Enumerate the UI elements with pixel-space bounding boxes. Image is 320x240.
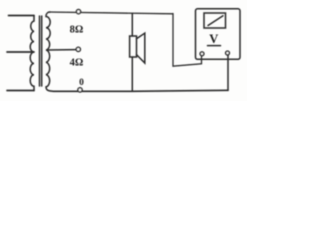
transformer T primary winding: [30, 16, 34, 91]
speaker LS: [130, 36, 137, 57]
voltmeter U case: [196, 9, 241, 60]
wire 4ohm tap: [47, 49, 77, 51]
wire primary bottom lead: [7, 90, 34, 92]
terminal 0: [78, 88, 82, 92]
terminal 4ohm: [76, 47, 80, 51]
voltmeter display window: [204, 13, 226, 28]
transformer T secondary winding: [46, 12, 53, 91]
terminal 8ohm: [76, 10, 80, 14]
svg-text:4Ω: 4Ω: [70, 57, 84, 68]
transformer core: [39, 16, 41, 86]
wire voltmeter right terminal down: [227, 55, 229, 91]
wire primary top lead: [9, 15, 35, 17]
svg-text:0: 0: [79, 78, 84, 88]
wire primary middle lead: [7, 51, 34, 53]
wire 0 tap (bottom wire): [53, 90, 228, 91]
wire 8ohm tap (top wire): [49, 12, 174, 14]
wire speaker bottom lead: [131, 57, 133, 91]
voltmeter terminal right: [226, 51, 230, 55]
svg-text:V: V: [209, 32, 218, 46]
wire speaker top lead: [131, 13, 133, 36]
wire top-right corner down: [173, 14, 202, 67]
voltmeter terminal left: [200, 52, 204, 56]
label V underline: [208, 45, 221, 47]
svg-text:8Ω: 8Ω: [70, 24, 84, 35]
voltmeter needle: [208, 16, 223, 26]
